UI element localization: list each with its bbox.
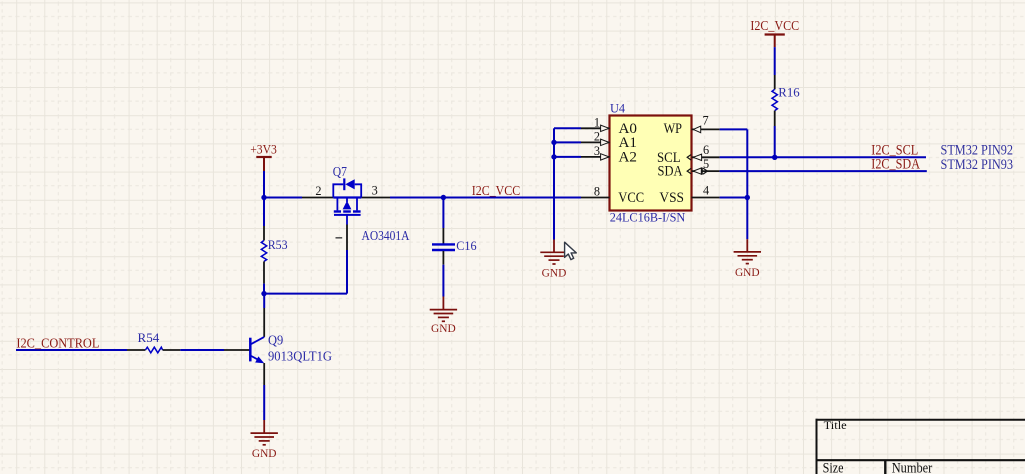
svg-text:6: 6 [703,143,709,157]
svg-text:2: 2 [594,129,600,143]
ground GND under VSS [734,239,761,279]
svg-text:8: 8 [594,185,600,199]
junction at +3V3 / R53 / Q7 node [261,195,266,200]
svg-text:I2C_CONTROL: I2C_CONTROL [16,336,99,351]
title block [816,418,1025,474]
svg-text:GND: GND [252,448,277,460]
svg-text:GND: GND [431,323,456,335]
svg-text:2: 2 [315,184,321,198]
svg-text:4: 4 [703,184,709,198]
svg-text:5: 5 [703,157,709,171]
ground GND under address chain [540,240,567,280]
ground GND under Q9 [251,420,278,460]
transistor Q9 (NPN 9013QLT1G) [224,294,332,420]
svg-text:Q7: Q7 [333,164,347,179]
wire I2C_CONTROL [16,349,127,351]
svg-text:A2: A2 [619,150,638,166]
pin 5 SDA [692,170,720,172]
svg-text:24LC16B-I/SN: 24LC16B-I/SN [610,211,686,225]
pin 6 SCL [692,156,720,158]
pin 1 number (rotated) of Q7 gate [336,237,343,239]
svg-text:1: 1 [594,115,600,129]
pin 3 A2 [581,156,610,158]
wire WP net [720,129,748,197]
wire SCL net [720,156,926,158]
junction A2 tie [551,154,556,159]
junction I2C_VCC node [441,195,446,200]
svg-text:STM32 PIN93: STM32 PIN93 [941,157,1014,173]
wire +3V3 rail [263,171,265,198]
wire node to Q7 source [264,197,302,199]
transistor Q7 (PMOS AO3401A) [302,164,410,250]
resistor R53 [261,198,287,294]
svg-text:Q9: Q9 [268,332,283,347]
wire VSS net [720,197,748,199]
junction A1 tie [551,140,556,145]
svg-text:7: 7 [703,114,709,128]
svg-text:R16: R16 [778,85,800,100]
svg-text:A1: A1 [619,135,638,151]
IC U4 24LC16B-I/SN [581,101,720,225]
wire R54 to Q9 base [180,349,224,351]
svg-text:9013QLT1G: 9013QLT1G [268,348,332,363]
svg-text:VSS: VSS [659,190,684,206]
svg-text:Number: Number [892,461,933,474]
wire SDA net [720,170,927,172]
svg-text:Size: Size [823,461,844,474]
svg-text:I2C_VCC: I2C_VCC [750,18,799,33]
wire VCC net to U4 pin 8 [443,197,581,199]
svg-text:I2C_VCC: I2C_VCC [472,183,520,198]
svg-text:3: 3 [372,183,378,197]
pin 2 A1 [581,141,610,143]
pin 4 VSS [692,197,720,199]
power port +3V3 [250,142,277,171]
svg-text:R53: R53 [268,237,288,252]
svg-text:VCC: VCC [618,190,644,206]
svg-text:SDA: SDA [658,164,683,180]
junction R53 / Q7 gate / Q9 collector [261,291,266,296]
svg-text:WP: WP [664,121,682,137]
pin 1 A0 [581,127,610,129]
junction R16 / SCL [772,155,777,160]
svg-text:+3V3: +3V3 [250,142,277,156]
svg-text:Title: Title [824,418,847,432]
svg-text:R54: R54 [138,330,160,345]
junction VSS / WP / GND [745,195,750,200]
svg-text:GND: GND [735,267,760,279]
svg-text:U4: U4 [610,101,626,116]
svg-text:GND: GND [542,267,567,279]
ground GND under C16 [430,297,457,335]
svg-text:I2C_SDA: I2C_SDA [871,156,920,172]
pin 8 VCC [581,197,610,199]
wire gate net [264,250,347,294]
resistor R54 [127,330,180,353]
svg-text:3: 3 [594,144,600,158]
capacitor C16 [432,198,477,297]
resistor R16 [772,47,800,157]
pin 7 WP [692,128,720,130]
svg-text:C16: C16 [456,238,477,253]
wire VSS to ground [746,198,748,240]
mouse cursor [565,242,577,259]
power port I2C_VCC [750,18,799,47]
wire A0/A1/A2 ground chain [554,128,581,239]
wire Q7 drain to I2C_VCC node [390,197,443,199]
svg-text:AO3401A: AO3401A [362,228,410,243]
